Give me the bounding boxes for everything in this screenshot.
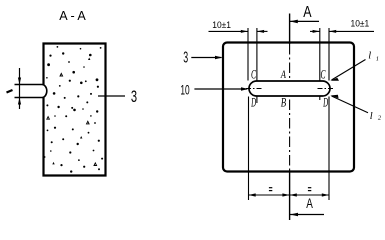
svg-text:l: l <box>370 111 373 122</box>
leader l1 <box>332 60 366 81</box>
right figure: specimen face square <box>223 43 354 172</box>
extension line at slot right arc centre <box>319 28 321 81</box>
svg-text:A: A <box>280 69 287 81</box>
vertical section line A-A: dash-dot through square <box>289 44 291 171</box>
svg-text:C: C <box>321 67 326 82</box>
leader l2 <box>332 96 369 113</box>
svg-text:B: B <box>281 96 287 110</box>
equal mark right <box>308 187 311 189</box>
section arrow A bottom <box>290 214 324 216</box>
leader 3 (left figure) <box>98 95 125 97</box>
svg-text:A: A <box>306 196 313 211</box>
slot axis dash-dot segments <box>246 88 262 90</box>
equal mark left <box>269 187 272 189</box>
notch width dimension line with arrows <box>19 68 21 109</box>
svg-text:10±1: 10±1 <box>212 20 231 30</box>
equality dimension line bottom <box>249 194 330 196</box>
slot (stadium shape) <box>249 81 330 96</box>
extension line at slot left extremity <box>247 28 249 81</box>
svg-text:C: C <box>251 67 256 82</box>
svg-text:3: 3 <box>183 50 188 67</box>
svg-text:2: 2 <box>378 115 382 122</box>
svg-text:A - A: A - A <box>59 9 86 23</box>
svg-text:1: 1 <box>376 55 379 62</box>
vertical section line A-A: top solid <box>289 14 291 45</box>
notch dimension label (small tick) <box>7 90 13 93</box>
svg-text:A: A <box>303 4 312 21</box>
extension line at slot right extremity <box>328 28 330 81</box>
notch (slot shown in section) <box>15 85 47 98</box>
svg-text:l: l <box>368 50 371 61</box>
svg-text:3: 3 <box>131 87 137 106</box>
svg-text:D: D <box>251 96 257 110</box>
specimen section rectangle fill <box>44 44 106 176</box>
extension line at slot left arc centre <box>256 28 258 81</box>
specimen section outline with notch opening on left edge <box>44 44 106 176</box>
vertical section line A-A: bottom solid <box>289 171 291 220</box>
section arrow A top <box>290 20 319 22</box>
svg-text:D: D <box>323 96 329 110</box>
svg-text:10: 10 <box>180 83 189 98</box>
stipple dots (concrete texture) <box>44 46 103 173</box>
svg-text:10±1: 10±1 <box>351 19 370 29</box>
